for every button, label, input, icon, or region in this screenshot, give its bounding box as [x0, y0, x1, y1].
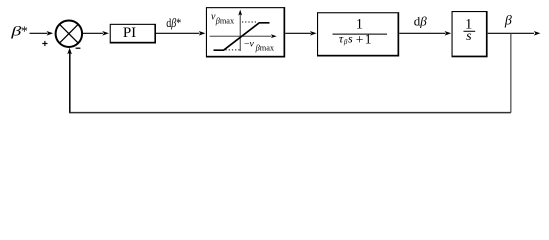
block 1/s integrator — [452, 11, 488, 57]
minus sign — [76, 47, 81, 49]
wire input to summer — [30, 32, 48, 34]
svg-text:+: + — [356, 32, 364, 47]
svg-text:1: 1 — [365, 32, 372, 47]
feedback wire up into summer — [69, 53, 71, 113]
svg-text:s: s — [348, 32, 353, 46]
saturation block — [206, 7, 285, 57]
wire summer to PI — [83, 32, 103, 34]
block PI — [110, 24, 156, 44]
svg-text:*: * — [21, 25, 28, 40]
fraction bar — [333, 34, 388, 35]
svg-text:PI: PI — [123, 25, 136, 41]
dotted line lower — [226, 49, 240, 51]
saturation horizontal axis — [210, 35, 272, 37]
dotted line upper — [242, 21, 257, 23]
feedback wire bottom horizontal — [69, 112, 511, 114]
wire saturation to lag block — [285, 32, 311, 34]
svg-text:1: 1 — [356, 17, 363, 33]
wire integrator to output — [488, 32, 534, 34]
feedback wire down from tap — [510, 33, 512, 112]
wire lag to integrator — [399, 32, 445, 34]
saturation curve — [214, 23, 270, 50]
svg-text:dβ*: dβ* — [166, 15, 181, 30]
block 1/(tau_beta s + 1) — [317, 12, 399, 56]
summing junction — [56, 20, 83, 47]
svg-text:−v: −v — [244, 38, 255, 49]
svg-text:s: s — [466, 29, 472, 44]
plus sign — [42, 43, 47, 45]
saturation vertical axis — [239, 14, 241, 51]
svg-text:β: β — [504, 14, 512, 29]
fraction bar — [464, 31, 476, 32]
svg-text:βmax: βmax — [215, 17, 235, 26]
svg-text:dβ: dβ — [414, 13, 428, 28]
wire PI to saturation — [156, 32, 200, 34]
svg-text:βmax: βmax — [255, 43, 275, 52]
